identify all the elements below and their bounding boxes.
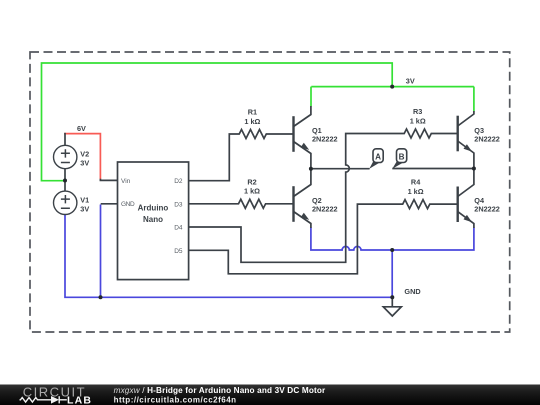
svg-text:1 kΩ: 1 kΩ [244,187,260,196]
svg-text:V1: V1 [80,196,89,205]
svg-text:R2: R2 [247,177,256,186]
svg-text:1 kΩ: 1 kΩ [244,117,260,126]
svg-text:Vin: Vin [121,178,131,185]
svg-text:3V: 3V [406,77,415,86]
svg-text:D4: D4 [174,225,183,232]
svg-text:http://circuitlab.com/cc2f64n: http://circuitlab.com/cc2f64n [114,396,237,405]
svg-text:D5: D5 [174,248,183,255]
svg-text:D2: D2 [174,178,183,185]
svg-text:V2: V2 [80,150,89,159]
svg-text:R3: R3 [413,107,422,116]
svg-text:mxgxw / H-Bridge for Arduino N: mxgxw / H-Bridge for Arduino Nano and 3V… [114,386,326,395]
svg-text:A: A [375,152,381,161]
svg-text:1 kΩ: 1 kΩ [410,116,426,125]
svg-text:2N2222: 2N2222 [474,204,500,213]
svg-text:2N2222: 2N2222 [312,134,338,143]
svg-text:3V: 3V [80,205,89,214]
svg-text:6V: 6V [77,124,86,133]
svg-text:D3: D3 [174,201,183,208]
svg-text:B: B [399,152,405,161]
svg-text:Nano: Nano [143,215,163,224]
svg-text:LAB: LAB [67,395,92,405]
svg-text:R4: R4 [411,178,421,187]
svg-text:2N2222: 2N2222 [474,134,500,143]
svg-text:1 kΩ: 1 kΩ [408,187,424,196]
svg-text:R1: R1 [248,108,257,117]
svg-text:3V: 3V [80,158,89,167]
svg-text:GND: GND [404,287,420,296]
svg-text:Arduino: Arduino [138,204,169,213]
svg-text:GND: GND [121,201,135,208]
svg-text:2N2222: 2N2222 [312,204,338,213]
